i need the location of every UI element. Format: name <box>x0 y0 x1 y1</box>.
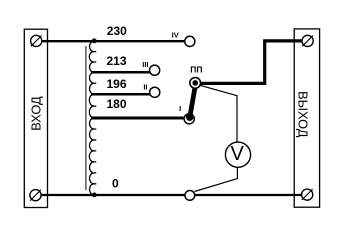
transformer core line <box>85 46 87 190</box>
svg-text:230: 230 <box>107 24 127 38</box>
svg-text:196: 196 <box>106 77 126 91</box>
voltmeter sense wire top <box>200 85 238 142</box>
switch arm end dot <box>186 114 193 121</box>
terminal X1 top-left <box>31 35 42 46</box>
tap wire 196 <box>91 93 150 96</box>
switch pivot ПП <box>190 78 201 89</box>
svg-text:0: 0 <box>112 177 119 191</box>
svg-text:III: III <box>142 60 148 69</box>
svg-text:ПП: ПП <box>190 65 202 75</box>
contact III <box>150 65 160 75</box>
switch arm <box>190 85 196 117</box>
output terminal strip box <box>294 29 319 207</box>
top wire (input L to contact IV) <box>41 40 185 42</box>
voltmeter tap contact circle on bottom wire <box>185 191 195 201</box>
terminal X4 bottom-right <box>302 189 313 200</box>
svg-text:ВХОД: ВХОД <box>29 96 44 131</box>
terminal X2 bottom-left <box>30 190 41 201</box>
tap wire 180 <box>91 117 184 120</box>
svg-text:180: 180 <box>106 97 126 111</box>
contact II <box>150 87 160 97</box>
contact I <box>184 114 194 124</box>
svg-text:IV: IV <box>172 30 179 39</box>
tap wire 213 <box>91 71 150 74</box>
voltmeter PV circle <box>225 142 250 167</box>
switch pivot dot <box>192 80 198 86</box>
junction dot top (230 tap) <box>92 38 97 43</box>
junction dot bottom (0 tap) <box>92 193 97 198</box>
terminal X3 top-right <box>302 35 313 46</box>
svg-text:213: 213 <box>106 54 126 68</box>
svg-text:II: II <box>143 83 147 92</box>
autotransformer winding T1 <box>89 41 96 195</box>
voltmeter sense wire bottom <box>195 167 238 191</box>
contact IV <box>185 36 195 46</box>
input terminal strip box <box>24 29 47 207</box>
svg-text:ВЫХОД: ВЫХОД <box>296 91 311 138</box>
svg-text:I: I <box>179 104 181 113</box>
bottom wire (input N to output N) <box>40 194 302 196</box>
selector switch output wire (thick) <box>199 41 302 84</box>
svg-text:V: V <box>231 143 245 165</box>
